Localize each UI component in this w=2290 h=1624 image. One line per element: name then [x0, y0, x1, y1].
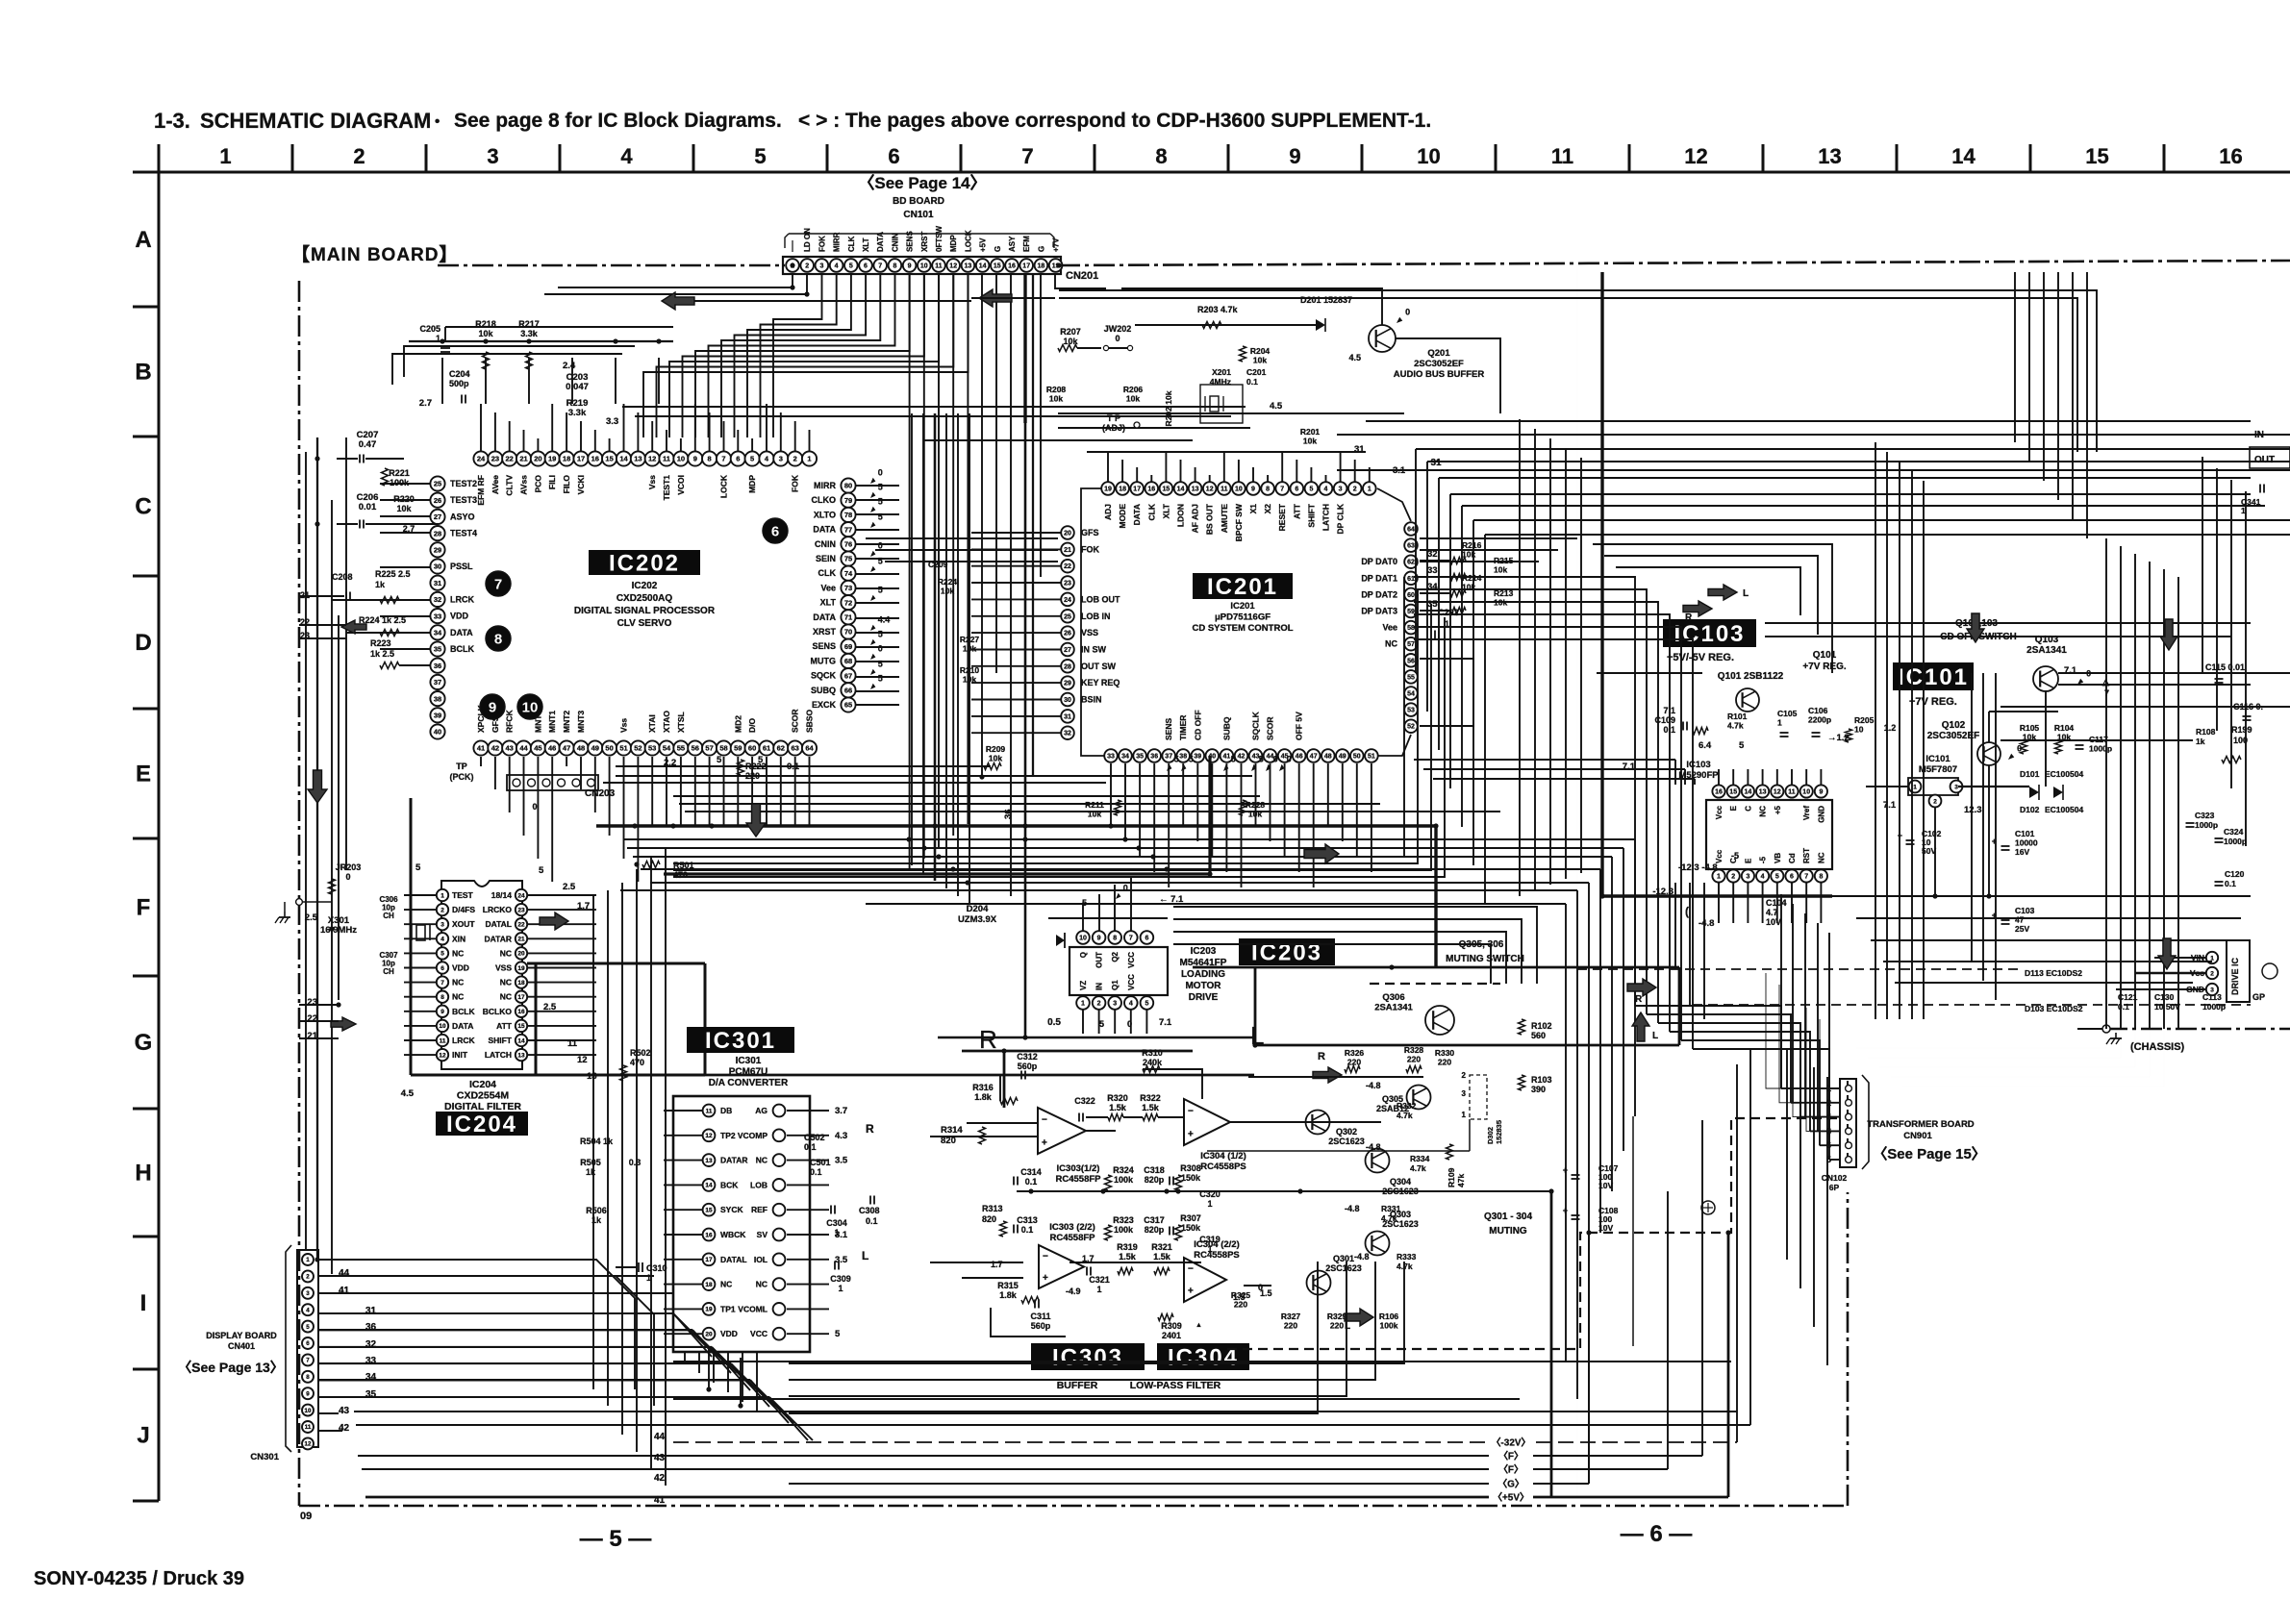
svg-text:C101: C101	[2015, 829, 2035, 838]
svg-text:F: F	[137, 895, 151, 921]
svg-text:BCLKO: BCLKO	[483, 1007, 513, 1016]
svg-text:XTAO: XTAO	[662, 711, 671, 733]
svg-text:Q102: Q102	[1942, 720, 1966, 731]
svg-text:C312: C312	[1017, 1052, 1038, 1062]
svg-text:— 6 —: — 6 —	[1621, 1521, 1693, 1547]
svg-text:3: 3	[1339, 487, 1343, 493]
svg-text:D101: D101	[2020, 769, 2040, 779]
svg-text:2SA1341: 2SA1341	[1374, 1003, 1413, 1013]
svg-text:8: 8	[893, 263, 896, 270]
svg-text:14: 14	[1745, 789, 1752, 796]
svg-text:10: 10	[305, 1408, 312, 1414]
svg-text:R323: R323	[1113, 1215, 1134, 1225]
left big vertical bus x330-360	[316, 437, 318, 1260]
svg-text:R325: R325	[1231, 1290, 1251, 1300]
svg-text:LOB OUT: LOB OUT	[1081, 594, 1120, 604]
svg-text:25V: 25V	[2015, 924, 2029, 934]
svg-text:TEST2: TEST2	[450, 479, 477, 488]
svg-text:VCKI: VCKI	[576, 475, 586, 494]
svg-text:560p: 560p	[1018, 1062, 1038, 1071]
svg-text:EXCK: EXCK	[812, 700, 837, 710]
svg-text:57: 57	[1407, 641, 1415, 648]
svg-text:1.5k: 1.5k	[1119, 1252, 1137, 1262]
svg-text:7.1: 7.1	[1883, 800, 1897, 811]
left ends of band connecting down from IC202 bottom pins	[480, 757, 482, 766]
svg-text:AMUTE: AMUTE	[1220, 504, 1229, 534]
svg-text:61: 61	[763, 744, 770, 753]
svg-text:Q101 2SB1122: Q101 2SB1122	[1718, 671, 1784, 682]
svg-text:12: 12	[577, 1055, 588, 1065]
IC202 top pin stubs upward	[480, 404, 482, 451]
svg-text:40: 40	[434, 728, 441, 737]
IC202 top pin row (pins 24..1)	[473, 451, 488, 465]
svg-text:MODE: MODE	[1118, 504, 1127, 529]
svg-text:16: 16	[2219, 144, 2242, 168]
verticals right edge group	[2105, 538, 2107, 1029]
svg-text:R102: R102	[1531, 1021, 1552, 1031]
svg-text:57: 57	[705, 744, 713, 753]
svg-text:OUT: OUT	[1095, 952, 1104, 968]
svg-text:6: 6	[440, 965, 444, 972]
svg-text:1k 2.5: 1k 2.5	[370, 649, 394, 659]
svg-text:78: 78	[844, 511, 852, 519]
thick horizontal under IC203	[938, 1037, 1255, 1039]
svg-text:220: 220	[1438, 1058, 1451, 1067]
svg-text:2: 2	[353, 144, 365, 168]
svg-text:37: 37	[1165, 754, 1172, 761]
svg-text:11: 11	[663, 455, 670, 463]
svg-text:19: 19	[705, 1307, 713, 1313]
svg-text:−: −	[1188, 1264, 1194, 1275]
svg-text:LOB: LOB	[750, 1180, 768, 1189]
svg-text:2: 2	[1353, 487, 1357, 493]
svg-text:KEY REQ: KEY REQ	[1081, 678, 1120, 687]
svg-text:R314: R314	[941, 1125, 963, 1136]
svg-text:LD ON: LD ON	[803, 228, 812, 252]
svg-text:CN301: CN301	[250, 1452, 279, 1462]
svg-text:GND: GND	[1817, 806, 1825, 823]
svg-text:11: 11	[935, 263, 943, 270]
svg-text:See page 8 for IC Block Diagra: See page 8 for IC Block Diagrams.	[454, 110, 782, 132]
svg-text:TIMER: TIMER	[1178, 715, 1188, 740]
svg-text:2.5: 2.5	[563, 882, 576, 892]
svg-text:R199: R199	[2231, 725, 2252, 735]
wires into DRIVE IC	[2154, 957, 2205, 959]
svg-text:DATAR: DATAR	[720, 1156, 747, 1165]
svg-text:0.01: 0.01	[359, 502, 377, 512]
svg-text:I: I	[140, 1290, 147, 1316]
svg-text:820p: 820p	[1145, 1175, 1165, 1185]
IC301 right pins (analog)	[773, 1105, 786, 1117]
svg-text:46: 46	[548, 744, 556, 753]
svg-text:3: 3	[819, 263, 823, 270]
svg-text:13: 13	[1192, 487, 1199, 493]
svg-text:10k: 10k	[1253, 356, 1267, 365]
svg-text:-5: -5	[1731, 851, 1739, 861]
svg-text:AG: AG	[755, 1106, 768, 1115]
svg-text:VCC: VCC	[1127, 952, 1136, 968]
svg-text:L: L	[1743, 588, 1749, 599]
svg-text:70: 70	[844, 628, 852, 637]
svg-text:C115 0.01: C115 0.01	[2205, 662, 2245, 672]
svg-text:CN901: CN901	[1903, 1131, 1932, 1141]
muting dashed boundary	[1370, 983, 1500, 985]
svg-text:XRST: XRST	[813, 627, 837, 637]
svg-text:IN: IN	[1095, 983, 1104, 990]
svg-text:C322: C322	[1074, 1096, 1095, 1106]
svg-text:RC4558PS: RC4558PS	[1200, 1162, 1246, 1172]
svg-text:CH: CH	[383, 912, 394, 920]
svg-text:7.1: 7.1	[2064, 665, 2077, 676]
svg-text:Vcc: Vcc	[1715, 805, 1724, 819]
svg-text:1: 1	[807, 455, 811, 463]
svg-text:FOK: FOK	[791, 474, 800, 492]
wires IC204 left side	[404, 894, 436, 896]
svg-text:〈See Page 15〉: 〈See Page 15〉	[1873, 1145, 1986, 1162]
thick center bus y909	[664, 872, 1210, 875]
svg-text:Vss: Vss	[619, 718, 629, 733]
svg-text:NC: NC	[720, 1280, 732, 1289]
svg-text:17: 17	[517, 994, 525, 1001]
rails from IC201 top area to right edge	[1337, 434, 2290, 436]
svg-text:MOTOR: MOTOR	[1185, 981, 1221, 991]
svg-text:2: 2	[440, 907, 444, 913]
svg-text:Q302: Q302	[1336, 1127, 1357, 1137]
svg-text:6: 6	[1145, 936, 1148, 942]
svg-text:24: 24	[1064, 597, 1071, 604]
wire CN101 comb pins 3-13 descending	[773, 274, 822, 346]
thick audio L loop from IC203	[1193, 966, 1679, 969]
svg-text:JW202: JW202	[1104, 324, 1132, 334]
svg-text:2SC1623: 2SC1623	[1328, 1137, 1365, 1146]
svg-text:41: 41	[1223, 754, 1231, 761]
svg-text:14: 14	[979, 263, 987, 270]
nested elbows right of IC203 down to muting	[1173, 907, 1537, 984]
svg-text:39: 39	[1194, 754, 1201, 761]
svg-text:IC201: IC201	[1230, 601, 1255, 612]
svg-text:IC204: IC204	[469, 1079, 496, 1090]
svg-text:47: 47	[1310, 754, 1318, 761]
svg-text:R334: R334	[1410, 1154, 1430, 1163]
svg-text:37: 37	[434, 678, 441, 687]
thick audio R wire	[962, 1050, 1193, 1053]
svg-text:5: 5	[878, 497, 883, 507]
IC103 pin top wires	[1718, 769, 1720, 785]
svg-text:30: 30	[434, 562, 441, 571]
svg-text:0.1: 0.1	[2225, 879, 2236, 888]
svg-text:Vcc: Vcc	[1715, 849, 1724, 863]
IC202 DSP body (pin chain, no rect)	[589, 550, 700, 575]
svg-text:4: 4	[620, 144, 633, 168]
diode pair D302 152835	[1470, 1075, 1487, 1119]
svg-text:R331: R331	[1381, 1204, 1401, 1213]
svg-text:6: 6	[736, 455, 740, 463]
svg-text:C313: C313	[1017, 1215, 1038, 1225]
verticals feeding CN901	[1780, 894, 1782, 1088]
svg-text:NC: NC	[756, 1156, 768, 1165]
svg-text:DP DAT3: DP DAT3	[1361, 607, 1397, 616]
svg-text:IN SW: IN SW	[1081, 645, 1107, 655]
svg-text:5: 5	[306, 1324, 310, 1331]
svg-text:SUBQ: SUBQ	[811, 686, 836, 695]
svg-text:72: 72	[844, 598, 852, 607]
svg-text:ATT: ATT	[496, 1021, 513, 1031]
down arrows right side	[2160, 619, 2177, 650]
svg-text:SCHEMATIC DIAGRAM: SCHEMATIC DIAGRAM	[200, 109, 431, 133]
svg-text:CNIN: CNIN	[815, 539, 836, 549]
svg-text:SQCLK: SQCLK	[1251, 711, 1261, 740]
svg-text:FOK: FOK	[1081, 544, 1099, 554]
svg-text:2SA1341: 2SA1341	[2026, 645, 2067, 656]
svg-text:NC: NC	[756, 1280, 768, 1289]
diagonal jogs near CN301 fan	[673, 1313, 717, 1357]
svg-text:18: 18	[705, 1282, 713, 1288]
svg-text:1: 1	[219, 144, 231, 168]
svg-text:1000p: 1000p	[2089, 744, 2112, 754]
svg-text:X201: X201	[1212, 367, 1231, 377]
wires Q103 collector to right edge	[2058, 672, 2290, 674]
svg-text:1.8k: 1.8k	[974, 1092, 993, 1102]
svg-text:BCLK: BCLK	[452, 1007, 475, 1016]
svg-text:2.5: 2.5	[543, 1002, 557, 1012]
svg-text:10: 10	[522, 700, 539, 716]
svg-text:C310: C310	[646, 1263, 667, 1273]
svg-text:56: 56	[1407, 658, 1415, 664]
svg-text:MUTG: MUTG	[811, 656, 837, 665]
svg-text:0: 0	[1273, 754, 1278, 763]
svg-text:5: 5	[1259, 754, 1264, 763]
svg-text:9: 9	[1819, 789, 1823, 796]
svg-text:CLKO: CLKO	[812, 495, 837, 505]
svg-text:+5: +5	[1774, 805, 1782, 814]
svg-text:RST: RST	[1802, 848, 1811, 863]
svg-text:EFM RF: EFM RF	[476, 475, 486, 506]
svg-text:C: C	[1744, 806, 1752, 812]
svg-text:T P: T P	[1107, 413, 1120, 423]
svg-text:NC: NC	[452, 948, 464, 958]
wires IC204 right side fan to IC301	[528, 894, 596, 896]
svg-text:10k: 10k	[396, 504, 412, 513]
svg-text:54: 54	[1407, 691, 1415, 698]
IC203 loading motor drive body	[1070, 947, 1168, 995]
svg-text:R216: R216	[1462, 540, 1482, 550]
svg-text:RESET: RESET	[1277, 503, 1287, 531]
thick audio path lower	[705, 1074, 1254, 1077]
svg-text:17: 17	[577, 455, 585, 463]
svg-text:5: 5	[878, 483, 883, 492]
svg-text:6: 6	[888, 144, 899, 168]
svg-text:NC: NC	[1817, 852, 1825, 863]
IC201 left pin column (20..32)	[1061, 526, 1074, 539]
left column extra verticals	[305, 452, 307, 1250]
svg-text:53: 53	[1407, 708, 1415, 714]
svg-text:0.5: 0.5	[1047, 1017, 1061, 1028]
wire node line above IC202 with caps/resistors	[409, 340, 673, 342]
svg-text:Vee: Vee	[820, 583, 836, 592]
svg-text:C103: C103	[2015, 906, 2035, 915]
svg-text:XIN: XIN	[452, 934, 466, 943]
svg-text:0: 0	[1405, 308, 1410, 317]
svg-text:12: 12	[439, 1052, 446, 1059]
svg-text:DRIVE: DRIVE	[1189, 992, 1219, 1003]
svg-text:0: 0	[1127, 1019, 1132, 1029]
svg-text:−: −	[1188, 1106, 1194, 1116]
svg-text:3: 3	[1954, 784, 1958, 790]
svg-text:B: B	[135, 360, 151, 386]
svg-text:16: 16	[705, 1232, 713, 1238]
nested elbow bus to IC103 region	[1414, 577, 1635, 1006]
svg-text:-4.8: -4.8	[1366, 1081, 1381, 1090]
svg-text:RFCK: RFCK	[505, 710, 515, 733]
svg-text:12: 12	[305, 1441, 312, 1448]
svg-text:R210: R210	[960, 665, 980, 675]
svg-text:CNIN: CNIN	[891, 233, 899, 252]
svg-text:35: 35	[1136, 754, 1144, 761]
svg-text:1: 1	[1462, 1111, 1467, 1119]
svg-text:LOCK: LOCK	[964, 230, 972, 252]
svg-text:0.47: 0.47	[359, 439, 377, 450]
svg-text:DATA: DATA	[876, 232, 885, 252]
svg-text:ADJ: ADJ	[1103, 504, 1113, 520]
wire IC201 top pins up	[1107, 452, 1109, 482]
svg-text:4: 4	[440, 937, 444, 943]
svg-text:1.5k: 1.5k	[1109, 1103, 1127, 1112]
svg-text:3: 3	[1746, 874, 1749, 881]
svg-text:4: 4	[1129, 1001, 1133, 1008]
svg-text:6: 6	[864, 263, 868, 270]
svg-text:C105: C105	[1777, 709, 1798, 718]
svg-text:+: +	[1043, 1273, 1048, 1284]
svg-text:3: 3	[1113, 1001, 1117, 1008]
svg-text:VSS: VSS	[1081, 628, 1098, 637]
svg-text:DATA: DATA	[1132, 504, 1142, 525]
svg-text:7: 7	[306, 1358, 310, 1364]
svg-text:77: 77	[844, 525, 852, 534]
wire comb second stage into IC202 top pins	[772, 346, 774, 437]
svg-text:15: 15	[705, 1208, 713, 1214]
svg-text:NC: NC	[452, 992, 464, 1002]
svg-text:5: 5	[878, 630, 883, 639]
svg-text:XRST: XRST	[920, 232, 929, 252]
svg-text:51: 51	[1368, 754, 1375, 761]
svg-text:-4.9: -4.9	[1066, 1287, 1081, 1296]
svg-text:X1: X1	[1248, 504, 1258, 514]
IC204 left pins 1..12	[437, 889, 448, 901]
svg-text:560p: 560p	[1031, 1321, 1051, 1331]
svg-text:R207: R207	[1060, 327, 1081, 337]
svg-text:−: −	[1042, 1114, 1047, 1125]
svg-text:4.5: 4.5	[1270, 401, 1283, 412]
svg-text:L: L	[1652, 1031, 1658, 1041]
svg-text:27: 27	[1064, 647, 1071, 654]
svg-text:9: 9	[1097, 936, 1101, 942]
wire CN101 power pins down	[981, 274, 983, 777]
down arrow left edge	[308, 770, 327, 803]
chassis ground left	[284, 912, 286, 917]
svg-text:10k: 10k	[1248, 810, 1262, 819]
svg-text:0.3: 0.3	[629, 1158, 642, 1167]
svg-text:XLTO: XLTO	[814, 510, 836, 519]
verticals into IC103 top pins	[1674, 760, 1676, 785]
svg-text:10: 10	[1079, 936, 1087, 942]
svg-text:29: 29	[1064, 681, 1071, 687]
svg-text:64: 64	[1407, 527, 1415, 534]
svg-text:LOADING: LOADING	[1181, 969, 1225, 980]
svg-text:MNT3: MNT3	[576, 711, 586, 733]
right long verticals from dash-dot top	[2014, 272, 2016, 442]
svg-text:13: 13	[587, 1071, 597, 1082]
svg-text:R206: R206	[1123, 385, 1144, 394]
svg-text:58: 58	[1407, 625, 1415, 632]
svg-text:DP DAT0: DP DAT0	[1361, 557, 1397, 566]
svg-text:1.5k: 1.5k	[1153, 1252, 1171, 1262]
svg-text:10: 10	[1802, 789, 1810, 796]
IC202 right pin column (80..65)	[841, 478, 855, 492]
svg-text:8: 8	[1113, 936, 1117, 942]
svg-text:43: 43	[654, 1453, 666, 1463]
svg-text:1k: 1k	[586, 1167, 596, 1177]
svg-text:31: 31	[1430, 458, 1442, 468]
svg-text:R228: R228	[1246, 800, 1266, 810]
svg-text:19: 19	[1104, 487, 1112, 493]
svg-text:IC202: IC202	[632, 581, 658, 591]
svg-text:R501: R501	[673, 861, 694, 870]
svg-text:SYCK: SYCK	[720, 1205, 743, 1214]
rails mid right connecting	[1765, 622, 2251, 624]
svg-text:R326: R326	[1345, 1048, 1365, 1058]
svg-text:Vss: Vss	[647, 475, 657, 489]
svg-text:5: 5	[717, 755, 722, 765]
svg-text:10k: 10k	[989, 754, 1002, 763]
wire CN101 pins 1-2 to left bus	[792, 274, 793, 287]
svg-text:SQCK: SQCK	[811, 671, 837, 681]
svg-text:AUDIO BUS BUFFER: AUDIO BUS BUFFER	[1394, 369, 1485, 380]
svg-text:10k: 10k	[1494, 565, 1507, 575]
svg-text:C501: C501	[810, 1158, 831, 1167]
IC203 top pins 10..6	[1076, 931, 1090, 944]
svg-text:2.7: 2.7	[419, 398, 432, 409]
svg-text:46: 46	[1296, 754, 1303, 761]
svg-text:CD OFF: CD OFF	[1193, 710, 1202, 740]
wires into CN901 pins	[1781, 1087, 1840, 1089]
nested horizontals below IC103 to CN901	[1635, 1006, 1781, 1088]
svg-text:0.1: 0.1	[804, 1142, 817, 1152]
vertical bundle right of IC201	[1519, 419, 1521, 896]
svg-text:14: 14	[517, 1037, 525, 1044]
svg-text:TP2: TP2	[720, 1131, 736, 1140]
thick bus corner down into audio loop	[1434, 826, 1437, 967]
svg-text:IC103: IC103	[1686, 760, 1710, 770]
rails above IC201	[1087, 451, 1366, 453]
svg-text:3: 3	[440, 922, 444, 929]
svg-text:C309: C309	[830, 1274, 851, 1284]
op-amp IC304(2/2)	[1184, 1258, 1226, 1302]
svg-text:Vref: Vref	[1802, 806, 1811, 820]
op-amp IC303(2/2)	[1039, 1245, 1084, 1288]
svg-text:10k: 10k	[1126, 394, 1140, 404]
svg-text:42: 42	[491, 744, 499, 753]
svg-text:21: 21	[300, 590, 310, 600]
svg-text:TEST3: TEST3	[450, 495, 477, 505]
svg-text:79: 79	[844, 496, 852, 505]
svg-text:−: −	[1043, 1251, 1048, 1262]
svg-text:R: R	[1635, 994, 1643, 1005]
svg-text:CLV SERVO: CLV SERVO	[617, 618, 672, 629]
svg-text:13: 13	[1759, 789, 1767, 796]
svg-text:D302: D302	[1486, 1127, 1495, 1144]
svg-text:BSIN: BSIN	[1081, 695, 1102, 705]
svg-text:50: 50	[605, 744, 613, 753]
